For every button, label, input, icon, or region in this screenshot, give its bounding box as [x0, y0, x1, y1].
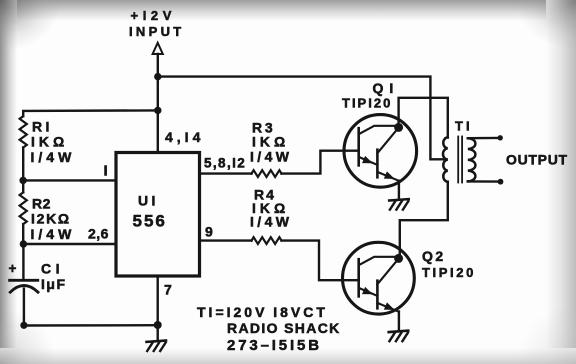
wire: R2 to pin-2,6 node — [22, 224, 24, 244]
wire: Q2 emitter to ground — [398, 312, 400, 332]
node: pin2,6 / C1 junction — [20, 240, 27, 247]
svg-text:RI: RI — [32, 119, 53, 135]
node: R1 tap junction — [154, 107, 161, 114]
svg-text:556: 556 — [133, 212, 167, 231]
svg-text:I: I — [104, 163, 108, 180]
svg-text:2,6: 2,6 — [88, 226, 109, 242]
transformer T1 secondary winding — [468, 138, 476, 181]
svg-text:Q2: Q2 — [422, 248, 446, 264]
svg-text:I/4W: I/4W — [250, 149, 292, 165]
op-amp/timer IC U1 556 — [116, 153, 200, 277]
wire: Q2 collector to T1 primary bottom — [399, 182, 448, 259]
node: pin1 / R2 junction — [19, 177, 26, 184]
note: T1 = 120V 18VCT RADIO SHACK 273-1515B — [197, 304, 341, 354]
transformer T1 core — [458, 137, 462, 183]
output terminal (bottom) — [498, 179, 504, 185]
svg-text:IKΩ: IKΩ — [252, 134, 289, 150]
label R3 1KΩ 1/4W — [250, 120, 292, 165]
resistor R2 — [20, 192, 27, 224]
svg-text:UI: UI — [138, 193, 159, 209]
ground (Q1 emitter) — [389, 199, 409, 210]
svg-text:I/4W: I/4W — [31, 226, 76, 242]
capacitor C1 — [10, 280, 38, 292]
wire: Q1 collector to T1 primary top — [399, 98, 448, 138]
svg-text:QI: QI — [373, 80, 400, 96]
svg-text:273–I5I5B: 273–I5I5B — [227, 337, 322, 354]
label U1 556 — [133, 193, 167, 231]
wire: bottom ground rail — [24, 324, 158, 327]
wire: +12V rail to transformer T1 center tap — [158, 77, 447, 160]
node: pin-7 ground junction — [154, 321, 162, 329]
svg-text:IμF: IμF — [41, 276, 67, 292]
wire: to U1 pin 2,6 — [23, 243, 115, 245]
wire: R3 to Q1 base — [282, 151, 359, 174]
wire: R4 to Q2 base — [282, 241, 359, 281]
svg-text:TIPI20: TIPI20 — [422, 265, 476, 280]
resistor R4 — [252, 237, 282, 244]
node: bottom rail corner — [20, 322, 27, 329]
transistor Q1 (TIP120 darlington) — [344, 115, 417, 188]
svg-text:RADIO SHACK: RADIO SHACK — [227, 320, 341, 336]
svg-text:TI=I20V I8VCT: TI=I20V I8VCT — [197, 304, 328, 320]
wire: Q1 emitter to ground — [398, 181, 400, 200]
wire: tap across to R1 — [23, 110, 158, 116]
resistor R3 — [252, 170, 282, 177]
svg-text:7: 7 — [164, 282, 172, 298]
svg-text:+I2V: +I2V — [131, 8, 177, 23]
label R4 1KΩ 1/4W — [250, 187, 292, 230]
wire: secondary bottom lead — [468, 180, 498, 183]
transistor Q2 (TIP120 darlington) — [343, 242, 415, 314]
svg-text:5,8,I2: 5,8,I2 — [204, 156, 246, 171]
svg-text:INPUT: INPUT — [129, 24, 185, 39]
svg-text:I/4W: I/4W — [31, 149, 76, 165]
svg-text:I2KΩ: I2KΩ — [31, 211, 71, 227]
label Q1 TIP120 — [342, 80, 399, 111]
svg-text:+: + — [9, 261, 17, 276]
svg-text:I/4W: I/4W — [250, 214, 292, 230]
wire: U1 pin 9 to R4 — [200, 239, 252, 241]
svg-text:R2: R2 — [32, 196, 51, 212]
label +12V INPUT — [129, 8, 185, 39]
svg-text:TIPI20: TIPI20 — [342, 96, 392, 111]
svg-text:CI: CI — [41, 261, 64, 277]
svg-text:TI: TI — [455, 119, 473, 134]
output terminal (top) — [498, 135, 503, 140]
wire: +12V input down to U1 pin 4,14 — [157, 54, 159, 152]
ground (Q2 emitter) — [389, 331, 409, 342]
wire: U1 pin 5,8,12 to R3 — [200, 172, 252, 174]
wire: node to C1 top plate — [22, 244, 24, 280]
wire: R1 to pin-1 node — [22, 148, 24, 181]
label R1 1KΩ 1/4W — [31, 119, 76, 166]
wire: to U1 pin 1 — [23, 179, 115, 181]
+12V input terminal arrow — [153, 43, 163, 54]
svg-text:OUTPUT: OUTPUT — [506, 152, 568, 168]
label R2 12KΩ 1/4W — [31, 196, 76, 243]
wire: U1 pin 7 to ground — [156, 276, 158, 341]
node: +12V rail junction — [154, 73, 161, 80]
label C1 1µF — [41, 261, 67, 293]
svg-text:IKΩ: IKΩ — [31, 134, 68, 150]
wire: pin1 node down to R2 — [22, 180, 24, 192]
label Q2 TIP120 — [422, 248, 476, 280]
wire: secondary top lead — [468, 137, 498, 140]
wire: C1 to bottom rail — [23, 289, 25, 326]
svg-text:4,I4: 4,I4 — [165, 129, 204, 145]
transformer T1 primary winding — [443, 137, 448, 182]
svg-text:9: 9 — [205, 224, 213, 240]
ground (U1 pin 7) — [147, 341, 167, 352]
resistor R1 — [20, 116, 27, 147]
